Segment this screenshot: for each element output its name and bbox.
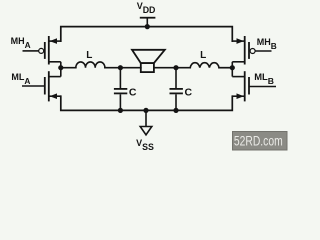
- watermark 52RD.com: [233, 132, 288, 151]
- transistor MLA (NMOS low-side, left): [22, 68, 61, 102]
- speaker LS: [132, 50, 165, 72]
- svg-text:C: C: [129, 86, 137, 98]
- transistor MHB (PMOS high-side, right): [232, 36, 271, 68]
- capacitor C right: [170, 68, 183, 111]
- capacitor C left: [114, 68, 127, 111]
- wire node-to-cap left: [105, 67, 141, 69]
- power VDD terminal: [140, 18, 156, 27]
- node A junction dot: [58, 65, 63, 70]
- node right cap junction dot: [173, 65, 178, 70]
- node VSS junction dot: [143, 108, 148, 113]
- svg-text:L: L: [200, 50, 206, 61]
- node bottom-right junction dot: [173, 108, 178, 113]
- node left cap junction dot: [118, 65, 123, 70]
- inductor L left: [76, 62, 105, 68]
- wire mid-left segment: [61, 67, 76, 69]
- wire top rail: [61, 27, 233, 41]
- node VDD junction dot: [145, 24, 150, 29]
- node B junction dot: [230, 65, 235, 70]
- transistor MHA (PMOS high-side, left): [23, 36, 61, 68]
- transistor MLB (NMOS low-side, right): [232, 68, 276, 102]
- node bottom-left junction dot: [118, 108, 123, 113]
- svg-text:L: L: [86, 50, 92, 61]
- wire speaker-to-cap right: [154, 67, 190, 69]
- wire bottom rail: [61, 96, 233, 110]
- wire mid-right segment: [219, 67, 232, 69]
- power VSS terminal: [140, 110, 152, 134]
- svg-text:C: C: [185, 86, 193, 98]
- inductor L right: [190, 63, 219, 68]
- svg-text:52RD.com: 52RD.com: [234, 132, 283, 148]
